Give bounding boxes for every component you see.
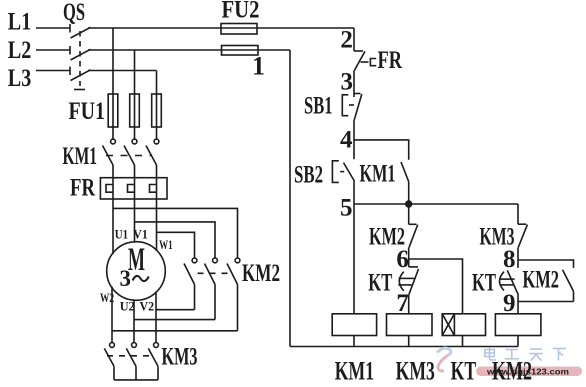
wire star bar: [114, 379, 158, 381]
wire V2 drop: [155, 292, 157, 343]
svg-text:3: 3: [120, 266, 132, 292]
coil KM2: [495, 314, 541, 347]
svg-text:KM3: KM3: [396, 356, 435, 385]
contact KM2 aux NO parallel: [563, 270, 574, 302]
wire 1 rail: [289, 50, 291, 347]
wire node5: [354, 203, 518, 205]
fuse FU1 pole1: [108, 94, 118, 127]
tilde of 3-phase: [133, 276, 149, 281]
wire U2 drop: [133, 300, 135, 343]
wire feeder2 to KM2 mid: [135, 222, 216, 258]
svg-text:1: 1: [252, 52, 265, 81]
svg-text:V1: V1: [133, 227, 148, 242]
wire 2 drop: [353, 28, 355, 51]
svg-text:9: 9: [503, 290, 516, 317]
contact FR NC: [354, 51, 365, 97]
switch QS pole 3: [70, 67, 157, 81]
svg-text:2: 2: [340, 27, 353, 54]
contact KT NO delayed-close: [507, 260, 518, 314]
svg-text:7: 7: [396, 290, 409, 317]
svg-text:KM1: KM1: [360, 161, 396, 188]
svg-text:V2: V2: [140, 298, 155, 313]
contactor KM3 main pole3: [148, 343, 158, 380]
svg-text:KM1: KM1: [63, 143, 98, 170]
wire U2 to KM2: [134, 319, 215, 321]
svg-text:KM1: KM1: [335, 356, 374, 385]
contactor KM1 main pole1: [103, 127, 116, 178]
wire node8 branch: [518, 260, 574, 268]
node L2: [36, 49, 70, 51]
SB2 actuator bracket: [332, 161, 344, 183]
svg-text:3: 3: [341, 69, 354, 96]
KT arc symbol right: [500, 272, 515, 291]
svg-text:U1: U1: [115, 227, 128, 242]
svg-text:L2: L2: [8, 37, 32, 64]
contact KM1 aux NO: [401, 162, 409, 204]
fuse FU2a: [221, 24, 257, 35]
switch QS pole 1: [70, 24, 354, 38]
button SB1 NC: [354, 94, 362, 160]
svg-text:FR: FR: [70, 175, 96, 202]
wire W2 drop: [111, 287, 113, 343]
svg-text:L3: L3: [8, 65, 32, 92]
svg-text:U2: U2: [120, 298, 135, 313]
contactor KM3 main pole2: [126, 343, 136, 380]
wire V2 to KM2: [156, 309, 195, 311]
svg-text:W1: W1: [159, 237, 173, 252]
contact KM3 NC interlock: [518, 224, 527, 260]
svg-text:KM2: KM2: [492, 356, 532, 385]
contact KM2 NC interlock: [409, 204, 418, 259]
contact KT NC delayed-open: [409, 259, 419, 314]
contactor KM2 main pole1: [184, 258, 197, 310]
svg-text:FU1: FU1: [69, 98, 106, 125]
wire bottom bar: [290, 346, 518, 348]
FR heater element 2: [128, 178, 135, 199]
watermark char tian: [529, 349, 543, 361]
wire node4 branch: [354, 140, 409, 160]
svg-text:KM3: KM3: [480, 223, 515, 250]
button SB2 NO: [344, 163, 355, 204]
fuse FU1 pole3: [152, 94, 162, 127]
svg-text:KM2: KM2: [369, 223, 405, 250]
svg-text:KT: KT: [472, 269, 496, 296]
contactor KM1 main pole3: [146, 127, 159, 178]
motor M circle: [107, 242, 166, 301]
wire feeder1 to KM2 right: [113, 208, 238, 258]
watermark logo swirl: [437, 348, 451, 371]
coil KM1: [332, 314, 376, 347]
contactor KM2 main pole2: [205, 258, 218, 320]
FR heater element 3: [150, 178, 157, 199]
svg-text:SB1: SB1: [304, 92, 333, 119]
wire node6 branch to KT coil: [409, 259, 463, 314]
wire V1: [134, 199, 136, 243]
svg-text:L1: L1: [8, 9, 32, 36]
contactor KM3 main pole1: [104, 343, 114, 380]
watermark char xia: [553, 349, 566, 361]
coil KT with X box: [442, 314, 485, 347]
node L1: [36, 27, 70, 29]
contactor KM2 main pole3: [227, 258, 240, 331]
watermark char dian: [485, 348, 496, 361]
wire W2 to KM2: [112, 330, 238, 332]
FR actuator bracket: [361, 59, 377, 66]
junction dot node5: [406, 201, 412, 207]
fuse FU2b: [222, 46, 259, 56]
wire phase3 drop: [156, 71, 158, 95]
wire phase2 drop: [134, 50, 136, 94]
KM3 main linkage dashed: [107, 355, 151, 357]
wire node9 return: [518, 301, 574, 303]
switch QS pole 2: [70, 46, 290, 60]
svg-text:QS: QS: [63, 0, 85, 26]
svg-text:KM2: KM2: [523, 267, 560, 294]
relay FR heater box: [100, 178, 167, 199]
wire rail to KM1 coil: [353, 204, 355, 314]
watermark char gong: [505, 350, 519, 359]
svg-text:KM2: KM2: [242, 260, 280, 287]
KT arc symbol left: [398, 272, 414, 291]
wire node5 to KM3 branch: [517, 204, 519, 224]
FR heater element 1: [106, 178, 113, 199]
svg-text:FU2: FU2: [222, 0, 260, 23]
svg-text:KT: KT: [451, 356, 477, 385]
fuse FU1 pole2: [130, 94, 140, 127]
watermark banner: [476, 367, 582, 377]
svg-text:FR: FR: [378, 47, 403, 74]
wire phase1 drop: [112, 28, 114, 94]
node L3: [36, 70, 70, 72]
SB1 actuator bracket: [342, 95, 354, 116]
coil KM3: [387, 314, 433, 347]
svg-text:KM3: KM3: [162, 344, 198, 371]
svg-text:4: 4: [340, 127, 353, 154]
switch QS linkage dashed: [74, 31, 85, 90]
wire W1: [156, 199, 158, 251]
wire U1: [112, 199, 114, 254]
KM2 main linkage dashed: [198, 272, 233, 274]
KM1 main linkage dashed: [106, 155, 152, 157]
contactor KM1 main pole2: [124, 127, 137, 178]
svg-text:5: 5: [340, 195, 353, 222]
svg-text:KT: KT: [368, 269, 392, 296]
wire feeder3 to KM2 left: [157, 232, 195, 258]
svg-text:W2: W2: [100, 290, 114, 305]
svg-text:SB2: SB2: [294, 161, 323, 188]
